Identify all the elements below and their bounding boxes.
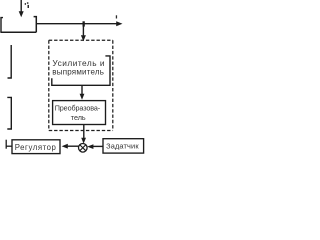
feedback pipe upper segment	[8, 45, 12, 78]
arrowhead: output to the right	[116, 21, 122, 26]
arrowhead: into regulator (pointing left)	[62, 144, 68, 149]
label: input flow symbol (tiny marks)	[25, 3, 26, 5]
dashed boundary: measuring unit	[49, 39, 113, 41]
wire: regulator output stub	[6, 145, 12, 147]
wire: input flow line into object	[20, 0, 22, 13]
amplifier box (partially faded edges)	[52, 56, 110, 85]
tick at stub end	[5, 140, 7, 149]
wire: junction down to measuring unit	[82, 24, 84, 37]
svg-text:выпрямитель: выпрямитель	[52, 67, 104, 76]
label: output tick mark	[116, 15, 117, 18]
arrowhead: down into dashed unit	[81, 35, 86, 41]
controlled object vessel (open-top box), left wall with lip	[1, 18, 3, 32]
controlled object vessel bottom edge	[0, 31, 36, 33]
node: junction on output wire	[83, 21, 85, 26]
svg-text:Усилитель и: Усилитель и	[52, 58, 105, 68]
svg-text:Регулятор: Регулятор	[15, 143, 57, 152]
feedback pipe lower segment	[7, 97, 11, 129]
transducer box	[53, 101, 106, 125]
svg-text:тель: тель	[71, 113, 86, 122]
wire: amplifier to transducer	[81, 85, 83, 94]
svg-text:Преобразова-: Преобразова-	[55, 103, 101, 112]
wire: setter to comparator	[92, 145, 103, 147]
svg-text:Задатчик: Задатчик	[106, 141, 139, 150]
comparator circle with cross	[79, 144, 88, 153]
arrowhead: into transducer	[80, 94, 85, 100]
arrowhead: input flow	[19, 11, 24, 17]
controlled object vessel right wall with lip	[34, 17, 37, 33]
wire: object output (temperature)	[36, 23, 117, 25]
wire: comparator to regulator	[67, 145, 79, 147]
arrowhead: into comparator (pointing left)	[87, 144, 93, 149]
wire: transducer to comparator	[83, 125, 85, 139]
regulator box	[12, 140, 60, 154]
arrowhead: into comparator	[81, 138, 86, 144]
setter box	[103, 139, 144, 153]
